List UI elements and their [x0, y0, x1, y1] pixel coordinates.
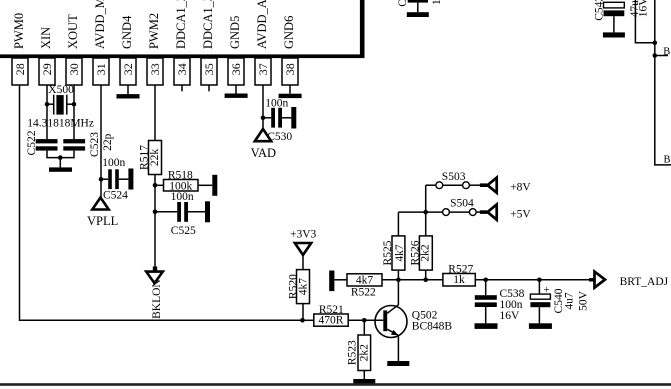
wire right rail — [655, 0, 671, 165]
svg-text:31: 31 — [94, 63, 108, 75]
svg-text:+8V: +8V — [510, 181, 531, 193]
node C538 — [483, 278, 488, 283]
svg-text:C522: C522 — [26, 130, 38, 155]
svg-text:100n: 100n — [500, 299, 523, 311]
svg-text:14.31818MHz: 14.31818MHz — [27, 117, 94, 129]
svg-text:30: 30 — [67, 63, 81, 75]
power flag +5V — [480, 205, 532, 221]
svg-text:GND5: GND5 — [228, 16, 242, 49]
svg-text:4k7: 4k7 — [394, 244, 406, 262]
capacitor C542 — [593, 0, 649, 38]
ground crystal — [49, 167, 72, 171]
svg-text:PWM0: PWM0 — [12, 13, 26, 49]
capacitor C522 — [26, 130, 58, 155]
svg-text:XIN: XIN — [39, 27, 53, 49]
wire main node to R527 — [398, 279, 443, 281]
svg-text:R525: R525 — [382, 240, 394, 265]
power flag +8V — [480, 178, 532, 194]
node S504 tap — [423, 210, 428, 215]
pin 30 XOUT — [66, 14, 82, 85]
wire pin34 stub — [181, 85, 183, 91]
pin 28 PWM0 — [12, 13, 28, 85]
svg-text:16V: 16V — [638, 0, 650, 17]
svg-text:34: 34 — [175, 63, 189, 75]
ground GND4 — [117, 85, 140, 99]
node XIN-crystal — [45, 102, 50, 107]
svg-text:C542: C542 — [593, 0, 605, 21]
svg-text:AVDD_M: AVDD_M — [93, 0, 107, 49]
power flag +3V3 — [290, 229, 317, 270]
svg-text:100n: 100n — [171, 191, 194, 203]
wire PWM2 down — [154, 85, 156, 141]
svg-text:PWM2: PWM2 — [147, 13, 161, 49]
ground emitter — [387, 361, 409, 366]
wire pin35 stub — [208, 85, 210, 91]
svg-text:2k2: 2k2 — [420, 244, 432, 262]
svg-text:C523: C523 — [89, 132, 101, 157]
svg-text:4k7: 4k7 — [297, 278, 309, 296]
svg-text:38: 38 — [283, 63, 297, 75]
resistor R526 — [410, 185, 433, 280]
jumper S504 — [398, 198, 480, 216]
wire pin28 down-left rail — [20, 85, 303, 320]
svg-text:35: 35 — [202, 63, 216, 75]
resistor R522 — [329, 271, 398, 299]
svg-text:4k7: 4k7 — [356, 274, 374, 286]
wire AVDD_M down — [100, 85, 102, 197]
resistor R527 — [443, 264, 589, 287]
svg-text:B: B — [663, 47, 670, 58]
svg-text:22k: 22k — [149, 149, 161, 167]
ground C540 — [529, 323, 552, 329]
resistor R518 — [155, 170, 217, 203]
wire AVDD_A down — [262, 85, 264, 129]
pin 38 GND6 — [282, 16, 298, 85]
svg-text:32: 32 — [121, 63, 135, 75]
ground GND6 — [279, 85, 302, 98]
svg-text:C538: C538 — [500, 288, 525, 300]
capacitor C540 — [530, 280, 589, 324]
svg-text:B: B — [664, 155, 671, 166]
svg-text:GND4: GND4 — [120, 15, 134, 49]
node XOUT-crystal — [72, 102, 77, 107]
wire stub to connector B (upper) — [655, 55, 668, 57]
svg-text:50V: 50V — [577, 290, 589, 311]
capacitor C525 — [155, 201, 210, 237]
svg-text:22p: 22p — [102, 133, 114, 151]
resistor R523 — [347, 320, 371, 379]
svg-text:R522: R522 — [351, 287, 376, 299]
svg-text:AVDD_A: AVDD_A — [255, 0, 269, 49]
ground C538 — [475, 323, 498, 329]
svg-text:C541: C541 — [397, 0, 409, 7]
capacitor C541 (cut at top) — [397, 0, 443, 17]
capacitor C530 — [263, 97, 296, 143]
crystal X500 — [27, 84, 94, 129]
svg-text:BRT_ADJ: BRT_ADJ — [620, 276, 669, 288]
wire caps join — [47, 151, 74, 158]
node R518 tap — [153, 183, 158, 188]
node C530 tap — [261, 116, 266, 121]
svg-text:GND6: GND6 — [282, 16, 296, 49]
svg-text:VAD: VAD — [251, 146, 276, 160]
ground GND5 — [225, 85, 248, 98]
svg-text:DDCA1_2: DDCA1_2 — [174, 0, 188, 49]
node R520/R521 — [300, 318, 305, 323]
svg-text:XOUT: XOUT — [66, 14, 80, 49]
svg-text:29: 29 — [40, 63, 54, 75]
node caps join — [58, 155, 63, 160]
svg-text:4u7: 4u7 — [563, 292, 575, 310]
node C524 tap — [99, 177, 104, 182]
transistor Q502 — [375, 305, 452, 338]
border frame bottom — [0, 383, 671, 386]
pin 37 AVDD_A — [255, 0, 271, 85]
svg-text:33: 33 — [148, 63, 162, 75]
svg-text:BC848B: BC848B — [412, 320, 453, 332]
pin 31 AVDD_M — [93, 0, 109, 85]
svg-text:+3V3: +3V3 — [290, 229, 317, 241]
pin 34 DDCA1_2 — [174, 0, 190, 85]
power flag VAD — [251, 129, 276, 160]
resistor R520 — [287, 270, 309, 321]
wire emitter down — [397, 335, 399, 361]
resistor R525 — [382, 212, 406, 280]
svg-text:R523: R523 — [347, 340, 359, 365]
pin 35 DDCA1_3 — [201, 0, 217, 85]
svg-text:C524: C524 — [103, 189, 128, 201]
capacitor C524 — [101, 157, 133, 202]
node C525 tap — [153, 210, 158, 215]
svg-text:470R: 470R — [319, 314, 344, 326]
wire below R517 — [154, 175, 156, 267]
pin 36 GND5 — [228, 16, 244, 85]
pin 33 PWM2 — [147, 13, 163, 85]
wire XOUT down — [73, 85, 75, 139]
svg-text:S504: S504 — [450, 198, 474, 210]
wire to ground — [59, 158, 61, 168]
svg-text:VPLL: VPLL — [87, 214, 118, 228]
node R526 bottom — [423, 278, 428, 283]
svg-text:BKLON: BKLON — [151, 279, 163, 319]
net flag BKLON — [146, 267, 163, 319]
svg-text:+: + — [544, 284, 550, 296]
capacitor C523 — [63, 132, 114, 157]
svg-text:1k: 1k — [453, 274, 465, 286]
svg-text:37: 37 — [256, 63, 270, 75]
svg-text:DDCA1_3: DDCA1_3 — [201, 0, 215, 49]
node top-right 2 — [653, 53, 658, 58]
svg-text:100n: 100n — [265, 97, 288, 109]
power flag VPLL — [87, 198, 118, 228]
wire top-right L — [635, 0, 654, 43]
jumper S503 — [426, 171, 480, 189]
net flag BRT_ADJ — [589, 272, 669, 288]
node C540 — [537, 278, 542, 283]
resistor R521 — [303, 304, 384, 327]
svg-text:2k2: 2k2 — [358, 344, 370, 362]
node top-right 1 — [653, 41, 658, 46]
resistor R517 — [139, 141, 162, 175]
ground R523 — [353, 379, 375, 384]
node R523/base — [362, 318, 367, 323]
svg-text:28: 28 — [13, 63, 27, 75]
capacitor C538 — [475, 280, 525, 324]
svg-text:100n: 100n — [102, 157, 125, 169]
svg-text:100n: 100n — [431, 0, 443, 5]
svg-text:16V: 16V — [500, 310, 521, 322]
svg-text:X500: X500 — [48, 84, 74, 96]
node collector/R525 — [396, 278, 401, 283]
svg-text:+5V: +5V — [510, 209, 531, 221]
pin 29 XIN — [39, 27, 55, 85]
svg-text:C525: C525 — [171, 225, 196, 237]
wire collector up — [397, 280, 399, 305]
op-amp U1 — [0, 0, 365, 58]
svg-text:36: 36 — [229, 63, 243, 75]
pin 32 GND4 — [120, 15, 136, 85]
wire XIN down — [46, 85, 48, 139]
svg-text:S503: S503 — [442, 171, 466, 183]
